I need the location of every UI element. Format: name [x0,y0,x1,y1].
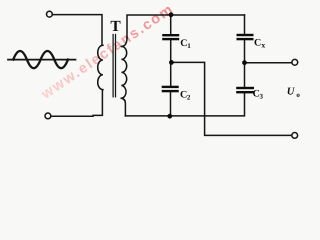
svg-text:C: C [254,37,261,48]
svg-text:U: U [287,87,296,98]
svg-text:3: 3 [260,93,264,101]
svg-text:x: x [261,40,265,49]
svg-text:2: 2 [187,94,191,102]
svg-text:o: o [296,91,300,99]
svg-text:T: T [110,18,121,35]
svg-text:1: 1 [187,42,191,50]
